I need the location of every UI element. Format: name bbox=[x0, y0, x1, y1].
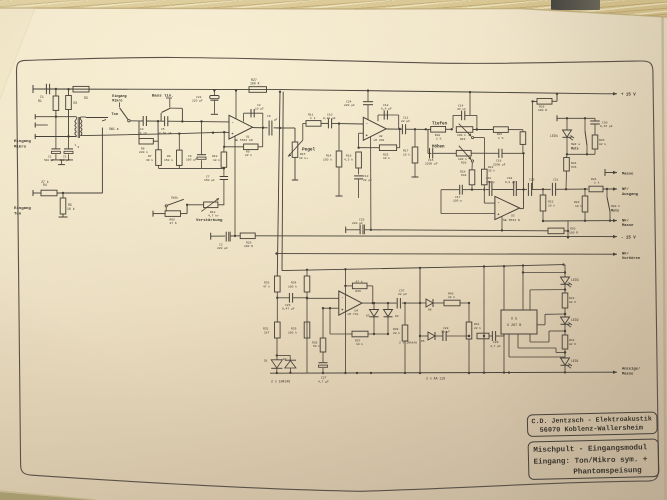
label U2 bbox=[374, 135, 385, 142]
svg-text:220 k: 220 k bbox=[139, 150, 148, 154]
svg-text:Mute: Mute bbox=[571, 146, 579, 150]
wire U3 minus jog bbox=[484, 190, 495, 204]
wire NF line left bbox=[441, 188, 527, 190]
title block project box bbox=[528, 439, 659, 480]
label Eingang Mikro bbox=[14, 139, 31, 150]
transformer TR1 bbox=[75, 117, 108, 138]
label C27 bbox=[318, 377, 329, 384]
svg-text:100 k: 100 k bbox=[288, 284, 297, 288]
resistor R45 bbox=[592, 135, 598, 154]
wire U5 to LED3 top bbox=[522, 271, 566, 273]
svg-text:Ausgang: Ausgang bbox=[622, 193, 639, 197]
node Eingang Mikro terminals bbox=[35, 114, 76, 139]
svg-text:R25: R25 bbox=[383, 153, 389, 156]
svg-text:NF/: NF/ bbox=[622, 218, 630, 223]
capacitor C10 bbox=[321, 118, 363, 128]
capacitor C13 bbox=[354, 168, 363, 198]
svg-text:C27: C27 bbox=[321, 377, 327, 380]
label D4 bbox=[395, 315, 399, 318]
LED LED2 bbox=[561, 308, 573, 335]
svg-text:C26: C26 bbox=[285, 304, 291, 307]
label 2x1N4148 left bbox=[271, 380, 290, 384]
label U4 bbox=[348, 310, 359, 317]
potentiometer R15 Pegel bbox=[280, 128, 303, 180]
resistor R44 5V6 bbox=[564, 154, 570, 189]
potentiometer R24 treble bbox=[456, 146, 473, 162]
svg-text:2 x AA 119: 2 x AA 119 bbox=[426, 376, 445, 380]
label U5 bbox=[507, 317, 521, 327]
wire Masse stub bbox=[605, 169, 617, 176]
svg-text:R16: R16 bbox=[346, 155, 352, 158]
resistor R1 bbox=[53, 88, 59, 117]
label D5 bbox=[421, 340, 425, 343]
capacitor C25 bbox=[346, 225, 371, 235]
label C29 bbox=[490, 341, 501, 348]
svg-text:2 x 1N4148: 2 x 1N4148 bbox=[399, 342, 417, 345]
wire U1 output bbox=[253, 127, 281, 130]
wire NF Vorhoeren rail bbox=[277, 253, 618, 256]
LED LED4 bbox=[563, 118, 575, 154]
svg-text:R24: R24 bbox=[591, 178, 597, 181]
svg-text:R25: R25 bbox=[497, 133, 503, 136]
svg-text:22 k: 22 k bbox=[245, 153, 252, 157]
svg-text:0,47 µF: 0,47 µF bbox=[282, 308, 295, 311]
wooden table background bbox=[0, 0, 667, 26]
svg-text:C19: C19 bbox=[507, 177, 512, 180]
svg-text:LM 741: LM 741 bbox=[348, 313, 359, 316]
svg-text:Verstärkung: Verstärkung bbox=[196, 218, 223, 223]
op-amp U2 bbox=[363, 117, 386, 140]
label C10 bbox=[323, 114, 336, 120]
svg-text:NF/: NF/ bbox=[622, 187, 630, 192]
capacitor C26 bbox=[276, 292, 308, 322]
svg-text:SW3 b: SW3 b bbox=[611, 204, 620, 208]
svg-text:S: S bbox=[78, 146, 80, 149]
wire transformer to U1 bbox=[84, 131, 229, 136]
label R38 bbox=[356, 279, 363, 293]
wire bus A bbox=[275, 91, 281, 276]
capacitor C21 bbox=[552, 178, 588, 195]
svg-text:R43: R43 bbox=[569, 297, 575, 300]
label C2 C3 bbox=[44, 156, 70, 162]
svg-text:R30: R30 bbox=[570, 228, 576, 231]
right paper edge shadow bbox=[663, 17, 666, 500]
svg-text:C17: C17 bbox=[455, 196, 461, 199]
resistor R13 feedback bbox=[223, 128, 263, 150]
svg-text:39 k: 39 k bbox=[146, 158, 153, 162]
svg-text:C7: C7 bbox=[206, 176, 210, 179]
svg-text:D3: D3 bbox=[366, 315, 370, 318]
svg-text:Mikro: Mikro bbox=[14, 145, 27, 150]
label R23 bbox=[457, 133, 466, 141]
wire ton riser bbox=[101, 128, 103, 194]
svg-text:22 µF: 22 µF bbox=[401, 120, 410, 123]
wire U2 supply riser bbox=[370, 137, 372, 231]
resistor R14 bbox=[336, 124, 343, 196]
svg-text:1 k: 1 k bbox=[310, 116, 316, 120]
svg-text:82 K: 82 K bbox=[569, 343, 576, 346]
label R23b bbox=[574, 201, 582, 208]
svg-text:Masse: Masse bbox=[622, 372, 634, 376]
svg-text:100 K: 100 K bbox=[250, 82, 260, 86]
wire U1 supply riser bbox=[234, 136, 236, 236]
svg-text:R14: R14 bbox=[326, 155, 332, 158]
svg-text:10 k: 10 k bbox=[67, 207, 75, 211]
capacitor C4 bbox=[138, 116, 147, 135]
svg-text:D4: D4 bbox=[395, 315, 399, 318]
svg-text:150 k: 150 k bbox=[164, 158, 173, 162]
op-amp U1 bbox=[229, 115, 253, 139]
node Eingang Ton terminal bbox=[33, 190, 41, 196]
resistor R8 bbox=[164, 133, 182, 166]
svg-text:R05: R05 bbox=[170, 219, 176, 222]
svg-text:-: - bbox=[497, 202, 499, 206]
capacitor C22 bbox=[210, 89, 219, 114]
label Pegel R15 bbox=[299, 148, 316, 160]
wire U3 supply riser bbox=[501, 216, 503, 231]
label Verstaerkung bbox=[196, 218, 223, 223]
svg-text:C9: C9 bbox=[267, 115, 271, 118]
svg-text:100 R: 100 R bbox=[538, 109, 547, 112]
op-amp U3 bbox=[495, 196, 520, 219]
label NF Ausgang bbox=[622, 187, 639, 197]
label R24 pot bbox=[458, 157, 467, 165]
svg-text:R18: R18 bbox=[435, 134, 441, 137]
wire U3 plus input bbox=[441, 190, 495, 214]
wire supply mid bbox=[371, 230, 548, 231]
svg-text:C11: C11 bbox=[403, 116, 409, 119]
resistor R35 bbox=[288, 322, 310, 338]
svg-text:C37: C37 bbox=[399, 290, 405, 293]
svg-text:-: - bbox=[232, 121, 234, 125]
resistor R2 bbox=[66, 88, 72, 137]
capacitor C30 bbox=[590, 118, 600, 135]
wire ton input bbox=[57, 192, 102, 194]
svg-text:C16: C16 bbox=[496, 160, 502, 163]
resistor R29 and -15V rail bbox=[235, 233, 617, 239]
wire U4 supply riser bbox=[344, 269, 346, 374]
svg-text:- 15 V: - 15 V bbox=[621, 236, 636, 240]
svg-text:82 k: 82 k bbox=[599, 142, 606, 146]
capacitor C9 bbox=[269, 121, 272, 136]
resistor R38 feedback bbox=[345, 283, 372, 303]
capacitor C1 bbox=[33, 84, 73, 94]
wire U5 pin to LED2 anode bbox=[537, 313, 566, 325]
svg-text:20 k: 20 k bbox=[393, 331, 400, 335]
svg-text:R36: R36 bbox=[312, 341, 318, 344]
svg-text:R37: R37 bbox=[355, 339, 361, 342]
resistor R36 bbox=[312, 308, 326, 352]
wire signal to U1 bbox=[138, 120, 229, 122]
wire tone split bbox=[425, 128, 432, 153]
resistor R26 bbox=[531, 93, 558, 104]
svg-text:C22: C22 bbox=[196, 96, 202, 99]
label R33 bbox=[263, 281, 270, 288]
title block company box bbox=[527, 412, 657, 437]
capacitor C17 bbox=[460, 185, 463, 195]
svg-text:C20: C20 bbox=[529, 178, 535, 181]
svg-text:10 k: 10 k bbox=[575, 204, 582, 208]
svg-text:C5: C5 bbox=[161, 128, 165, 131]
label R34 bbox=[288, 281, 297, 288]
svg-text:0,22 µF: 0,22 µF bbox=[323, 117, 336, 120]
wire feedback bus bbox=[159, 165, 226, 169]
label C28 bbox=[441, 327, 450, 334]
svg-text:100 R: 100 R bbox=[569, 231, 578, 234]
switch SW2 bass lin bbox=[161, 108, 183, 123]
label Ton bbox=[112, 113, 118, 117]
diode D3 bbox=[370, 303, 379, 334]
label R13 bbox=[245, 150, 252, 157]
svg-text:33 µF: 33 µF bbox=[441, 331, 450, 334]
resistor R39 bbox=[402, 302, 408, 374]
left paper corner crease bbox=[0, 4, 36, 99]
svg-text:4,7 k+: 4,7 k+ bbox=[208, 213, 219, 217]
svg-text:R45: R45 bbox=[599, 139, 605, 142]
label R9 bbox=[170, 219, 177, 226]
svg-text:U 267 B: U 267 B bbox=[507, 324, 521, 328]
svg-text:4,7 µF: 4,7 µF bbox=[318, 380, 329, 383]
label R30 bbox=[569, 228, 578, 235]
label Hoehen bbox=[432, 145, 445, 150]
svg-text:150 k: 150 k bbox=[323, 157, 332, 161]
wire U5 pin to LED1 anode bbox=[508, 334, 565, 374]
svg-text:Anzeige/: Anzeige/ bbox=[622, 367, 641, 372]
label R39 bbox=[393, 328, 400, 335]
wire U5 pin to LED3 cathode bbox=[530, 288, 566, 310]
svg-text:R32: R32 bbox=[263, 327, 269, 330]
svg-text:39 k: 39 k bbox=[488, 169, 495, 173]
svg-text:R26: R26 bbox=[539, 105, 545, 108]
label R6 bbox=[139, 148, 148, 155]
wire U1 vplus riser bbox=[235, 89, 237, 119]
label R26 bbox=[538, 105, 547, 112]
svg-text:500 µF: 500 µF bbox=[44, 159, 54, 162]
svg-text:18 k: 18 k bbox=[213, 158, 220, 162]
svg-text:R12: R12 bbox=[210, 211, 216, 214]
svg-text:56070 Koblenz-Wallersheim: 56070 Koblenz-Wallersheim bbox=[540, 424, 644, 434]
svg-text:R41: R41 bbox=[474, 323, 480, 326]
svg-text:Eingang: Ton/Mikro sym. +: Eingang: Ton/Mikro sym. + bbox=[533, 456, 648, 467]
svg-text:10 k: 10 k bbox=[356, 342, 363, 346]
svg-text:100 k: 100 k bbox=[288, 330, 297, 334]
label Anzeige Masse bbox=[622, 367, 641, 377]
capacitor C14 loop bbox=[453, 111, 477, 129]
svg-text:R34: R34 bbox=[291, 281, 297, 284]
capacitor C8 loop bbox=[244, 109, 263, 128]
capacitor C16 treble series bbox=[471, 149, 525, 158]
resistor R5 with ground bbox=[59, 193, 68, 217]
label C9 bbox=[267, 115, 278, 122]
svg-text:R22: R22 bbox=[548, 201, 554, 204]
label C11 bbox=[401, 116, 410, 123]
svg-text:C30: C30 bbox=[602, 121, 608, 124]
resistor R34 bbox=[304, 269, 310, 373]
resistor R25 feedback bbox=[357, 129, 399, 151]
resistor R7 bbox=[146, 121, 161, 165]
svg-text:R3: R3 bbox=[84, 96, 88, 100]
svg-text:50 k: 50 k bbox=[313, 344, 320, 348]
svg-text:220 µF: 220 µF bbox=[352, 222, 363, 225]
svg-text:R8: R8 bbox=[167, 155, 171, 158]
label R44 bbox=[571, 162, 577, 169]
svg-text:Phantomspeisung: Phantomspeisung bbox=[573, 467, 642, 477]
label Bass lin bbox=[152, 94, 174, 108]
svg-text:µF: µF bbox=[274, 119, 278, 122]
svg-text:Masse: Masse bbox=[622, 172, 634, 176]
svg-text:R39: R39 bbox=[393, 328, 399, 331]
op-amp U4 bbox=[339, 291, 362, 315]
svg-text:2k7: 2k7 bbox=[264, 330, 270, 334]
label Eingang Mikro 2 bbox=[112, 94, 126, 107]
label R5 bbox=[67, 203, 75, 211]
capacitor C37 bbox=[397, 298, 420, 309]
svg-text:D5: D5 bbox=[421, 340, 425, 343]
svg-text:1 %: 1 % bbox=[436, 138, 442, 141]
capacitor C25b bbox=[226, 232, 236, 242]
label R45 bbox=[599, 139, 606, 146]
svg-text:R23: R23 bbox=[460, 138, 466, 141]
svg-text:6,8 µF: 6,8 µF bbox=[381, 108, 392, 111]
svg-text:R15: R15 bbox=[300, 153, 306, 156]
label R29 bbox=[244, 241, 253, 248]
resistor R42b bbox=[562, 335, 576, 349]
svg-text:6,8 µF: 6,8 µF bbox=[505, 181, 516, 184]
svg-text:2 x 1N4148: 2 x 1N4148 bbox=[271, 380, 290, 384]
svg-text:C15: C15 bbox=[428, 159, 434, 162]
svg-text:27 k: 27 k bbox=[41, 180, 49, 184]
label U1 bbox=[235, 135, 253, 142]
IC U5 bbox=[501, 310, 537, 334]
svg-text:22 µF: 22 µF bbox=[398, 293, 407, 296]
svg-text:R21: R21 bbox=[488, 166, 494, 169]
capacitor C24 supply bbox=[363, 89, 373, 119]
capacitor C5 bbox=[159, 116, 172, 135]
switch SW1b bbox=[165, 195, 184, 211]
svg-text:Eingang: Eingang bbox=[14, 139, 31, 144]
svg-text:C28: C28 bbox=[443, 327, 449, 330]
label 2xAA119 bbox=[426, 376, 445, 380]
svg-text:D2: D2 bbox=[283, 358, 287, 361]
capacitor C6 bbox=[186, 120, 206, 168]
svg-text:C18: C18 bbox=[486, 177, 491, 180]
svg-text:R40: R40 bbox=[448, 292, 454, 295]
svg-text:27 K: 27 K bbox=[170, 222, 177, 225]
svg-text:Ton: Ton bbox=[14, 213, 22, 217]
svg-text:U3: U3 bbox=[511, 214, 515, 217]
wire riser 420 bbox=[419, 268, 421, 374]
svg-text:Pegel: Pegel bbox=[302, 148, 316, 153]
svg-text:100 k: 100 k bbox=[458, 157, 467, 161]
wire U4 plus in bbox=[306, 297, 339, 299]
svg-text:LED4: LED4 bbox=[550, 134, 558, 138]
resistor R27 bbox=[249, 78, 267, 92]
svg-text:648: 648 bbox=[461, 174, 467, 177]
wire rail to bass loop bbox=[469, 91, 471, 116]
resistor R18 bbox=[431, 127, 453, 141]
svg-text:R7: R7 bbox=[148, 155, 152, 158]
svg-text:0,15 µF: 0,15 µF bbox=[600, 125, 613, 128]
svg-text:R36: R36 bbox=[356, 290, 362, 293]
label Eingang Ton bbox=[14, 206, 31, 217]
wire NF Ausgang bbox=[603, 187, 617, 190]
svg-text:Eingang: Eingang bbox=[14, 206, 31, 211]
svg-text:SW1 a: SW1 a bbox=[109, 127, 119, 131]
label SW1a bbox=[109, 127, 119, 131]
label Masse bbox=[622, 172, 634, 176]
svg-text:SW1b: SW1b bbox=[171, 195, 178, 199]
wire U5 gnd left bbox=[503, 334, 505, 374]
svg-text:R33: R33 bbox=[264, 281, 270, 284]
node +15V label bbox=[621, 94, 636, 98]
label SW3b Mute bbox=[611, 204, 620, 214]
capacitor C27 bbox=[319, 352, 328, 374]
svg-text:Mikro: Mikro bbox=[112, 98, 122, 103]
svg-text:100 p: 100 p bbox=[453, 200, 462, 203]
label C12 bbox=[381, 104, 392, 111]
wire LED4 bottom bus bbox=[566, 153, 595, 155]
label D1 D2 bbox=[264, 358, 287, 362]
capacitor C28 bbox=[443, 331, 470, 341]
label D3 bbox=[366, 315, 370, 318]
svg-text:D1: D1 bbox=[264, 359, 268, 362]
potentiometer R23 bass bbox=[456, 124, 484, 170]
label LED1 bbox=[571, 359, 579, 363]
label C14 bbox=[457, 104, 466, 111]
svg-text:Ton: Ton bbox=[112, 113, 118, 117]
svg-text:LED3: LED3 bbox=[571, 278, 579, 282]
svg-text:R17: R17 bbox=[403, 150, 409, 153]
svg-text:C13: C13 bbox=[363, 175, 369, 178]
svg-text:Mischpult - Eingangsmodul: Mischpult - Eingangsmodul bbox=[533, 444, 648, 455]
resistor R37 bbox=[330, 331, 389, 337]
label Tiefen bbox=[432, 122, 448, 127]
resistor R23b bbox=[565, 188, 588, 222]
svg-text:C8: C8 bbox=[257, 104, 261, 107]
svg-text:10 k: 10 k bbox=[383, 156, 390, 160]
svg-text:1: 1 bbox=[75, 144, 77, 147]
svg-text:NF/: NF/ bbox=[622, 251, 630, 256]
svg-text:R10: R10 bbox=[212, 155, 218, 158]
svg-text:10 k: 10 k bbox=[403, 152, 410, 156]
label R12 bbox=[208, 211, 219, 218]
label C8 bbox=[255, 104, 264, 111]
wire Anzeige Masse rail bbox=[270, 371, 617, 375]
label C13 bbox=[363, 175, 372, 182]
wire NF Masse bbox=[543, 219, 617, 222]
label LED4 bbox=[550, 134, 558, 138]
wire U5 feed left bbox=[503, 266, 505, 310]
svg-text:150 p: 150 p bbox=[486, 181, 495, 184]
diode D1 D2 bbox=[271, 338, 296, 374]
svg-text:C12: C12 bbox=[383, 104, 389, 107]
svg-text:22 k: 22 k bbox=[448, 295, 455, 299]
svg-text:+ 15 V: + 15 V bbox=[621, 94, 636, 98]
resistor R30 bbox=[548, 221, 569, 239]
resistor R10 bbox=[212, 147, 227, 169]
wire bus B bbox=[282, 92, 283, 271]
svg-text:C24: C24 bbox=[346, 101, 352, 104]
label R14 bbox=[323, 155, 332, 162]
svg-text:Vorhören: Vorhören bbox=[622, 256, 641, 261]
label R3 bbox=[84, 96, 88, 100]
capacitor C7 bbox=[204, 168, 228, 204]
label C17 bbox=[453, 196, 462, 203]
resistor R32 bbox=[263, 322, 280, 338]
resistor R20 bbox=[469, 162, 475, 191]
svg-text:U2: U2 bbox=[379, 135, 383, 138]
label C26 bbox=[282, 304, 295, 311]
